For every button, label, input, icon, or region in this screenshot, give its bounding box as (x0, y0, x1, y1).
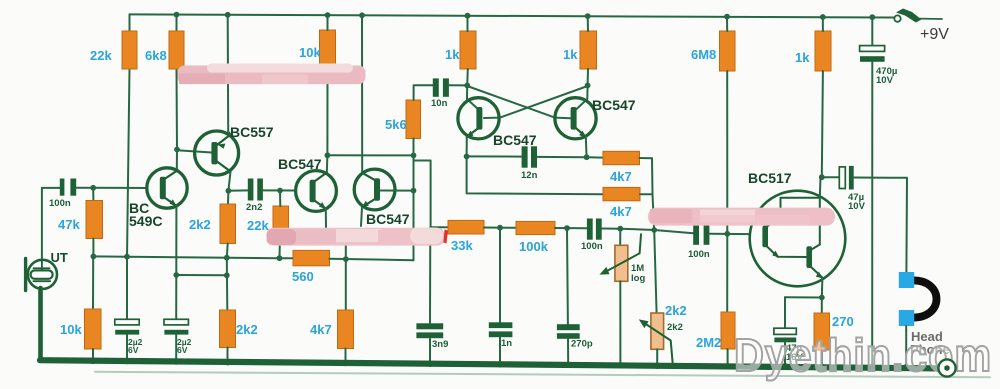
svg-text:12n: 12n (521, 170, 538, 181)
svg-text:6M8: 6M8 (691, 47, 716, 62)
wire 1n column (499, 228, 501, 323)
wire 5k6 bottom column (413, 139, 415, 261)
resistor 6M8 (720, 31, 736, 71)
wire 10k top lead (92, 256, 94, 309)
wire 270p column (566, 228, 569, 324)
svg-text:4k7: 4k7 (310, 322, 332, 337)
wire to 47u-a (822, 176, 839, 178)
transistor BC547 Q4 collector lead (362, 173, 376, 181)
wire 270p lower lead (567, 339, 569, 366)
wire 47k top lead (92, 188, 94, 201)
transistor BC547 Q4 circle (mirrored) (354, 169, 395, 210)
transistor BC549C circle (147, 168, 187, 208)
wire 470u top lead (871, 17, 873, 45)
wire 100k to 100n-b (555, 227, 587, 229)
wire Q6 emitter down (585, 137, 588, 157)
switch S1 open contact (894, 15, 900, 21)
node 6M8 top (724, 14, 730, 20)
svg-text:100k: 100k (519, 239, 549, 254)
svg-text:10V: 10V (848, 201, 866, 212)
node 22k/2u2 junction (124, 254, 130, 260)
svg-text:22k: 22k (247, 218, 269, 233)
wire 470u to ground (long) (871, 62, 873, 368)
svg-text:560: 560 (292, 269, 314, 284)
node 1n top (497, 225, 503, 231)
wire Q5 emitter down (466, 137, 468, 157)
wire emitter tap left (785, 296, 822, 298)
svg-text:2k2: 2k2 (665, 303, 687, 318)
wire 6M8 top (726, 17, 728, 31)
wire 2u2-a top lead (126, 257, 128, 320)
capacitor 100n-c (693, 223, 699, 245)
svg-text:10n: 10n (431, 98, 448, 109)
capacitor 12n (522, 146, 528, 167)
node Q3 emitter line / 560 wire (343, 256, 349, 262)
node 10k top (325, 12, 331, 18)
resistor 6k8 (169, 31, 184, 69)
microphone UT lead into capsule (41, 261, 43, 271)
wire 2M2 top lead (726, 234, 728, 312)
capacitor 47u-a electrolytic (839, 167, 845, 189)
resistor 2M2 (721, 312, 735, 349)
wire 10k to ground (92, 349, 94, 361)
capacitor 270p (557, 324, 580, 330)
wire 4k7 bottom to ground (345, 349, 347, 365)
wire BC557 emitter to rail (228, 15, 231, 135)
wire 270 to ground (821, 350, 823, 368)
transistor BC517 T2 collector lead (812, 245, 820, 250)
wire coupling Q3 collector to 5k6 line (327, 154, 413, 156)
svg-text:BC557: BC557 (230, 124, 274, 140)
svg-text:10k: 10k (60, 322, 82, 337)
node 1k-a / Q5 collector (464, 83, 470, 89)
svg-text:270: 270 (832, 314, 854, 329)
transistor BC517 T2 emitter lead (811, 267, 823, 278)
wire 47u-a to headphone (854, 178, 907, 273)
svg-text:549C: 549C (129, 213, 162, 229)
transistor BC517 circle (750, 191, 846, 287)
wire microphone ground lead (38, 288, 43, 361)
wire 47u-b to ground (784, 342, 786, 367)
capacitor 100n input (60, 179, 65, 196)
svg-text:BC547: BC547 (493, 132, 537, 148)
transistor BC547 Q6 emitter arrow (579, 131, 586, 138)
svg-text:1k: 1k (563, 47, 578, 62)
svg-text:270p: 270p (571, 339, 593, 350)
node Q4 collector top (359, 12, 365, 18)
resistor 560 (293, 250, 330, 265)
wire headphone to ground (905, 326, 907, 367)
svg-text:2n2: 2n2 (246, 202, 262, 213)
node 470u top (869, 14, 875, 20)
transistor BC547 Q3 collector lead (313, 173, 327, 183)
wire Q3 emitter column below censor (345, 246, 347, 311)
wire cross coupling 1k-b to Q5 base (484, 86, 588, 118)
resistor 4k7-b (603, 187, 640, 200)
svg-text:2k2: 2k2 (667, 322, 683, 333)
resistor 33k (448, 220, 484, 234)
wire cross coupling 1k-a to Q6 base (467, 86, 570, 118)
wire 270 top lead (821, 298, 823, 314)
wire trimmer bottom to ground (656, 349, 658, 366)
svg-text:BC547: BC547 (278, 156, 322, 172)
wire 47u-b top lead (784, 297, 786, 328)
capacitor 100n input left wire (42, 187, 60, 189)
wire 2k2 column to bottom 2k2 (226, 258, 229, 310)
transistor BC517 T1 collector lead (766, 216, 781, 228)
svg-text:4k7: 4k7 (610, 204, 632, 219)
resistor 1k a (460, 31, 476, 69)
wire 6k8 bottom lead down to BC557 base node (176, 69, 179, 150)
wire 2n2 to Q3 base (263, 189, 296, 191)
wire BC557 collector down (228, 172, 231, 205)
wire Q6 emitter to 4k7-a (587, 156, 603, 158)
transistor BC517 T1 emitter lead (766, 246, 807, 258)
microphone UT circle (28, 260, 57, 289)
microphone UT lower plate line (33, 280, 50, 282)
node 2k2 column junction (224, 255, 230, 261)
wire 47k bottom lead (92, 239, 94, 257)
capacitor 2u2-a electrolytic (115, 319, 139, 325)
wire pot top continues to tone column (620, 229, 654, 230)
node 560 left (277, 255, 283, 261)
transistor BC547 Q6 emitter lead (576, 128, 586, 137)
resistor 22k (122, 31, 137, 69)
svg-text:5k6: 5k6 (385, 117, 407, 132)
wire 5k6 top to 10n (414, 85, 433, 100)
wire pot bottom to ground (619, 281, 621, 366)
transistor BC547 Q4 emitter arrow (361, 201, 368, 208)
resistor 1k c (815, 31, 831, 71)
wire Q6 collector (576, 85, 588, 109)
wire branch to 33k column (414, 161, 431, 228)
capacitor 100n-b (587, 219, 593, 240)
wire to 2u2-b (175, 275, 177, 320)
transistor BC517 internal collector bus (781, 198, 820, 245)
svg-text:1k: 1k (795, 50, 810, 65)
wire pot top lead (619, 229, 621, 246)
transistor BC557 collector lead (217, 162, 231, 172)
wire signal into 100n-c (654, 230, 693, 233)
capacitor 3n9 (416, 323, 443, 329)
wire 22k-b top lead (279, 191, 281, 207)
svg-text:10V: 10V (876, 75, 894, 86)
transistor BC517 T1 base bar (762, 226, 768, 248)
transistor BC547 Q4 base bar (374, 178, 380, 200)
svg-text:3n9: 3n9 (432, 339, 448, 350)
svg-text:100n: 100n (581, 241, 603, 252)
wire 2M2 to ground (727, 349, 729, 367)
node BC517 base (724, 231, 730, 237)
wire BC517 collector up (819, 177, 822, 198)
svg-text:1n: 1n (501, 338, 512, 349)
wire 2k2 bottom to ground (227, 348, 229, 364)
microphone UT side bracket (24, 259, 27, 291)
wire 1k-c bottom lead (822, 17, 824, 31)
resistor 2k2 mid (220, 204, 236, 244)
wire 2u2-a to ground (126, 335, 128, 362)
wire top rail left corner down to 22k (129, 14, 131, 31)
svg-text:2k2: 2k2 (236, 322, 258, 337)
node 1k-c top (820, 14, 826, 20)
trimmer 2k2 wiper (645, 324, 673, 363)
headphone jack upper (899, 272, 914, 288)
trimmer 2k2 body (651, 313, 664, 349)
wire 6k8 top lead (176, 15, 178, 31)
resistor 47k (86, 201, 103, 239)
potentiometer 1M log body (615, 245, 628, 281)
wire 2n2 left (228, 189, 248, 191)
transistor BC547 Q5 emitter lead (467, 128, 479, 137)
svg-text:47k: 47k (58, 217, 80, 232)
transistor BC517 T1 emitter arrow (772, 251, 779, 258)
resistor 5k6 (406, 100, 421, 139)
node BC517 collector / 47u (819, 174, 825, 180)
wire 4k7 join column down to trimmer (652, 158, 657, 313)
node Q5 emitter (464, 154, 470, 160)
node 1k-b top (585, 13, 591, 19)
transistor BC557 emitter lead (217, 135, 231, 146)
svg-text:22k: 22k (90, 48, 112, 63)
wire Q3 collector (326, 155, 329, 172)
wire 10n right to 1k-a node (449, 84, 467, 86)
transistor BC517 T2 emitter arrow (816, 272, 823, 279)
wire 12n right to Q6 emitter (537, 156, 587, 158)
wire Q5 collector (467, 85, 479, 109)
node 22k-b top (277, 188, 283, 194)
transistor BC547 Q6 circle (555, 98, 596, 139)
node volume pot top (617, 226, 623, 232)
transistor BC549C emitter lead (163, 197, 176, 206)
resistor 4k7 bottom (338, 310, 354, 349)
wire emitter bus left to 12n (467, 155, 522, 157)
transistor BC549C base bar (160, 177, 166, 199)
node emitter link right (224, 272, 230, 278)
svg-text:6k8: 6k8 (145, 48, 167, 63)
wire 33k column down to 3n9 (429, 227, 431, 322)
svg-text:BC547: BC547 (592, 97, 636, 113)
svg-text:BC547: BC547 (366, 211, 410, 227)
transistor BC547 Q4 emitter lead (362, 198, 377, 207)
trimmer 2k2 wiper arrowhead (639, 319, 649, 328)
node 5k6 / coupling wire (411, 153, 417, 159)
wire 4k7-b right (640, 193, 652, 195)
capacitor 10n (433, 78, 439, 96)
transistor BC547 Q5 emitter arrow (466, 131, 474, 138)
svg-text:UT: UT (51, 250, 68, 265)
wire 22k long lead down to bias node (127, 69, 130, 257)
svg-text:10k: 10k (299, 45, 321, 60)
transistor BC517 T2 base bar (806, 246, 812, 268)
wire 1k-b top (587, 16, 589, 31)
node BC557 emitter top (225, 12, 231, 18)
capacitor 470u electrolytic (860, 46, 885, 52)
potentiometer 1M wiper arrowhead (600, 267, 610, 275)
transistor BC547 Q3 emitter arrow (319, 202, 326, 209)
svg-text:+9V: +9V (920, 26, 949, 43)
svg-text:log: log (631, 273, 645, 284)
wire emitter link (176, 274, 227, 276)
capacitor 2n2 (248, 179, 254, 201)
resistor 10k (320, 30, 336, 69)
wire 100n to BC549C base (76, 187, 147, 189)
wire mic coupling vertical (41, 188, 43, 261)
svg-text:33k: 33k (451, 238, 473, 253)
svg-text:6V: 6V (128, 345, 139, 355)
wire BC549C collector up to node (176, 150, 178, 171)
node BC557 collector / 2n2 (226, 188, 232, 194)
node 47k top (90, 185, 96, 191)
capacitor 2u2-b electrolytic (164, 319, 188, 325)
transistor BC549C emitter arrow (170, 199, 177, 206)
resistor 270 (814, 313, 830, 350)
node tone column / signal wire (651, 227, 657, 233)
wire BC549C emitter down (175, 206, 177, 275)
transistor BC547 Q3 base bar (310, 180, 316, 202)
wire 33k to 100k (484, 227, 516, 229)
wire Q4 emitter stub into censored area (361, 207, 362, 226)
wire 1k-a top (467, 16, 469, 31)
wire 100n-b to pot top (602, 228, 621, 230)
wire 2k2 mid bottom (226, 244, 229, 258)
transistor BC547 Q3 circle (296, 171, 337, 212)
node 6k8 top (174, 12, 180, 18)
wire emitter bias bus (93, 256, 293, 258)
node BC517 emitter (819, 295, 825, 301)
wire 4k7-a right (640, 157, 653, 159)
wire 1k-b bottom (587, 69, 589, 85)
node Q3 collector / coupling (325, 152, 331, 158)
wire Q3 emitter stub into censored area (325, 209, 327, 228)
transistor BC557 base bar (211, 142, 217, 164)
ground rail shadow line (95, 372, 990, 377)
svg-text:100n: 100n (49, 198, 71, 209)
resistor 22k-b (273, 206, 289, 243)
capacitor 1n (489, 322, 513, 328)
wire 100n-c to BC517 base (709, 233, 750, 235)
wire rail to Q4 collector (361, 15, 363, 173)
node Q4 base / 5k6 line (411, 188, 417, 194)
censored text bar top (178, 66, 366, 85)
svg-text:6V: 6V (177, 345, 188, 355)
wire 22k-b bottom lead (279, 243, 281, 258)
headphone jack lower (899, 310, 914, 326)
node emitter link left (173, 272, 179, 278)
censored text bar right (648, 208, 835, 226)
censored text bar middle (267, 228, 445, 246)
wire top supply rail (130, 14, 895, 17)
wire Q5 emitter feedback down and right (467, 156, 603, 194)
transistor BC547 Q3 emitter lead (313, 200, 326, 209)
wire 1n lower lead (499, 337, 501, 365)
node 1k-a top (465, 13, 471, 19)
switch S1 lever (896, 9, 922, 23)
wire 1k-a bottom (466, 69, 469, 85)
resistor 4k7-a (603, 151, 640, 164)
transistor BC547 Q6 base bar (571, 107, 577, 130)
wire 2u2-b to ground (175, 335, 177, 363)
resistor 1k b (580, 31, 597, 69)
node 270p top (564, 225, 570, 231)
wire 6M8 feedback column (726, 71, 728, 234)
wire BC517 emitter down (821, 278, 824, 298)
capacitor 47u-b electrolytic (774, 328, 796, 334)
svg-text:BC517: BC517 (748, 170, 792, 186)
wire 560 right to 5k6 column (330, 259, 414, 260)
wire from switch to +9V terminal (920, 18, 943, 20)
svg-text:2k2: 2k2 (189, 217, 211, 232)
node 1k-b / Q6 collector (585, 83, 591, 89)
resistor 2k2 bottom (220, 310, 236, 348)
headphone arc (911, 280, 937, 317)
svg-text:4k7: 4k7 (610, 169, 632, 184)
transistor BC547 Q5 circle (mirrored) (458, 98, 499, 139)
resistor 100k (516, 221, 555, 234)
wire Q4 base to 5k6 line (379, 190, 413, 192)
transistor BC557 circle (195, 131, 239, 175)
node 6k8 / BC557 base / BC549C collector (174, 147, 180, 153)
transistor BC557 emitter arrow (PNP) (218, 144, 226, 149)
transistor BC547 Q5 base bar (476, 107, 482, 130)
ground terminal circle (938, 359, 955, 376)
microphone UT capsule (31, 270, 53, 278)
svg-text:2M2: 2M2 (696, 335, 721, 350)
transistor BC549C collector lead (163, 171, 177, 180)
censored bar red tick (443, 230, 448, 244)
wire 3n9 lower lead (429, 339, 431, 365)
wire BC557 base (177, 150, 212, 152)
wire 10k bottom lead to Q3 collector (327, 15, 329, 30)
node 47k/10k junction (91, 254, 97, 260)
wire bottom ground rail (40, 360, 940, 368)
resistor 10k bottom (85, 309, 102, 349)
svg-text:1k: 1k (445, 47, 460, 62)
svg-text:100n: 100n (688, 249, 710, 260)
node Q6 emitter (584, 154, 590, 160)
wire 33k left lead (431, 226, 448, 228)
potentiometer 1M wiper (606, 234, 641, 271)
microphone UT upper plate line (33, 267, 49, 269)
